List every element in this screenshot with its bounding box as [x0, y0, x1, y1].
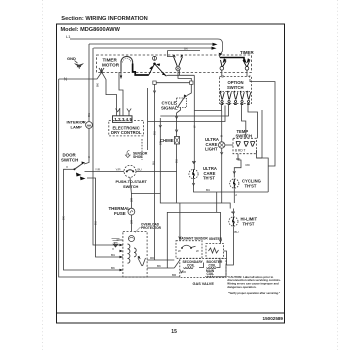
thermal fuse symbol — [128, 208, 135, 215]
svg-text:BU: BU — [87, 113, 91, 117]
svg-text:1 2 3 4 5: 1 2 3 4 5 — [114, 117, 132, 122]
svg-text:TH'ST: TH'ST — [245, 183, 257, 188]
timer motor thick wire — [133, 64, 149, 76]
timer motor left terminal — [120, 72, 122, 79]
wire door sw out1 — [85, 171, 111, 173]
svg-text:BK: BK — [111, 266, 115, 270]
svg-text:GND: GND — [67, 56, 76, 61]
wire from contact B top hooks — [167, 51, 173, 57]
option switch contacts — [220, 91, 251, 105]
svg-text:BU: BU — [152, 161, 156, 165]
svg-text:BR: BR — [158, 141, 162, 145]
timer thick bus wire — [220, 58, 244, 63]
wire connector symbols along verticals — [153, 91, 156, 93]
wire L1 — [70, 39, 223, 55]
svg-text:V: V — [87, 156, 91, 158]
wire uct bottom — [194, 179, 269, 192]
wire thermal fuse vertical — [130, 194, 132, 209]
svg-text:15: 15 — [171, 329, 177, 335]
electronic dry control terminal strip — [113, 116, 133, 123]
igniter element — [209, 248, 219, 253]
svg-text:TH'ST: TH'ST — [203, 176, 215, 181]
cycle signal buzzer — [177, 94, 188, 107]
temp switch contacts — [236, 142, 255, 147]
page border box — [57, 24, 285, 323]
svg-text:COIL: COIL — [209, 263, 217, 267]
gas valve box — [180, 259, 226, 278]
wire motor right out RD — [147, 259, 174, 261]
wire door sw out2 — [87, 178, 123, 257]
svg-text:SWITCH: SWITCH — [236, 134, 253, 139]
svg-text:BK: BK — [96, 83, 100, 87]
svg-text:BK: BK — [62, 216, 66, 220]
radiant sensor contact — [182, 245, 196, 247]
svg-text:BU: BU — [234, 230, 238, 234]
svg-text:TIMER: TIMER — [240, 50, 254, 55]
svg-text:dangerous operation.: dangerous operation. — [227, 285, 256, 289]
wire motor BR out — [147, 267, 174, 269]
svg-text:B: B — [220, 135, 224, 137]
wire L1 feed B — [94, 47, 213, 49]
wire motor right terminal down — [119, 72, 123, 116]
ultra care thermostat — [189, 169, 198, 178]
svg-text:*Verify proper operation after: *Verify proper operation after servicing… — [228, 291, 280, 295]
svg-text:BU: BU — [175, 159, 179, 163]
wire sensor dashed — [141, 139, 143, 160]
wire contacts to bus — [153, 81, 156, 84]
wire chime vertical — [176, 113, 178, 137]
wire buzzer down — [177, 108, 181, 114]
svg-text:COIL: COIL — [187, 263, 195, 267]
igniter box — [206, 244, 224, 259]
motor windings — [128, 244, 130, 263]
wire door pivot rail — [64, 169, 123, 270]
push-to-start switch — [124, 165, 136, 177]
svg-text:BU: BU — [138, 168, 142, 172]
wire ucl bottom — [221, 148, 223, 203]
wire terminal arrow A — [213, 43, 218, 46]
door switch symbol — [66, 162, 86, 181]
wire N junction to dry control — [102, 72, 117, 116]
gas valve internal wires — [181, 271, 187, 273]
svg-text:SIGNAL: SIGNAL — [161, 106, 178, 111]
svg-text:Y/R: Y/R — [95, 168, 101, 172]
svg-text:Y/R: Y/R — [116, 168, 122, 172]
svg-text:V: V — [112, 247, 114, 251]
ground symbol — [75, 61, 84, 70]
wire uct top — [193, 75, 195, 169]
svg-text:PROTECTOR: PROTECTOR — [141, 226, 162, 230]
svg-text:TH'ST: TH'ST — [243, 221, 255, 226]
wire second rail — [93, 48, 123, 245]
timer motor coil — [121, 56, 133, 71]
wire push-start to fuse — [130, 177, 131, 193]
wire ucl top — [221, 111, 223, 142]
svg-text:DRY CONTROL: DRY CONTROL — [111, 130, 142, 135]
svg-text:GAS VALVE: GAS VALVE — [193, 282, 215, 286]
wire temp T right — [257, 150, 263, 158]
temp switch box — [233, 138, 257, 153]
wire into push-to-start — [110, 171, 124, 173]
svg-text:SWITCH: SWITCH — [227, 85, 244, 90]
chime symbol — [175, 137, 180, 145]
svg-text:B RD T: B RD T — [235, 149, 245, 153]
timer contact C — [220, 59, 226, 70]
hi-limit thermostat — [229, 217, 238, 226]
svg-text:FUSE: FUSE — [114, 211, 126, 216]
cycling thermostat — [230, 179, 239, 188]
motor overload — [129, 236, 135, 242]
svg-text:W: W — [196, 249, 199, 253]
timer contact cam B — [173, 55, 183, 71]
wires below option switch — [221, 104, 223, 111]
timer contact cam A — [149, 56, 166, 76]
ultra care light symbol — [219, 142, 225, 148]
svg-text:BU: BU — [153, 131, 157, 135]
svg-text:W: W — [192, 125, 196, 128]
radiant sensor box — [176, 241, 202, 259]
wire vertical into timer — [219, 56, 221, 58]
svg-text:BU: BU — [206, 188, 210, 192]
svg-text:LAMP: LAMP — [71, 124, 83, 129]
wire N to junction — [59, 73, 102, 80]
motor box — [123, 231, 147, 277]
wire hi-limit top — [232, 209, 234, 217]
wire left rail lamp — [88, 44, 90, 122]
svg-text:IGNITER: IGNITER — [209, 237, 223, 241]
wire out push-to-start — [136, 172, 177, 203]
wire horizontal mid long — [131, 194, 230, 209]
svg-text:BK: BK — [157, 264, 161, 268]
motor start switch — [138, 258, 146, 266]
wire igniter right to hi-limit — [224, 251, 227, 265]
wire temp sw down left — [234, 154, 241, 178]
wires into dry control — [119, 108, 121, 116]
footer divider line — [57, 312, 285, 314]
wire terminal arrow B — [212, 47, 217, 50]
svg-text:MOTOR: MOTOR — [102, 63, 120, 68]
electronic dry control box — [109, 120, 144, 135]
option switch box — [220, 77, 252, 104]
caution text — [227, 275, 281, 295]
svg-text:V: V — [66, 165, 68, 169]
interior lamp symbol — [86, 122, 93, 129]
svg-text:LIGHT: LIGHT — [205, 147, 218, 152]
svg-text:L1: L1 — [66, 34, 71, 39]
svg-text:P: P — [82, 120, 84, 124]
wire L1 feed A — [89, 43, 213, 45]
svg-text:BU: BU — [94, 221, 98, 225]
wire mid second — [167, 212, 220, 268]
timer motor box — [97, 55, 252, 73]
wire rs feed — [179, 203, 181, 241]
motor ground — [112, 239, 123, 248]
timer motor terminals at junction — [99, 68, 104, 72]
svg-text:Model: MDG8600AWW: Model: MDG8600AWW — [61, 27, 121, 33]
dry control sensor arrow — [125, 151, 147, 160]
wire cycling bottom — [233, 189, 235, 204]
svg-text:BU: BU — [111, 253, 115, 257]
page artifact dotted line right — [337, 0, 339, 350]
wire hi-limit bottom — [227, 227, 234, 266]
wire chime down — [176, 144, 178, 172]
svg-text:SWITCH: SWITCH — [61, 158, 78, 163]
junction dot N — [100, 71, 102, 73]
svg-text:RADIANT SENSOR: RADIANT SENSOR — [179, 237, 208, 241]
svg-text:W: W — [178, 249, 181, 253]
svg-text:Section: WIRING INFORMATION: Section: WIRING INFORMATION — [61, 16, 147, 22]
motor feed arrows — [120, 244, 123, 271]
timer contact D — [243, 59, 250, 70]
wire ucl to temp — [225, 144, 233, 146]
svg-text:BK: BK — [184, 47, 188, 51]
svg-text:15002589: 15002589 — [263, 316, 284, 321]
page artifact dotted line left — [42, 0, 44, 350]
